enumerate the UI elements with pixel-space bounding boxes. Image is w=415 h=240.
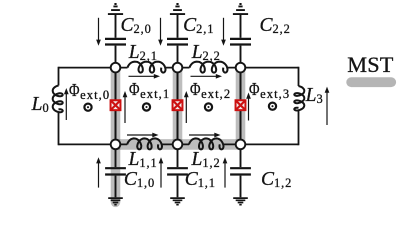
inductor L1,2: [189, 138, 224, 149]
label Phi_ext,0: [69, 81, 110, 102]
ground (top) for C2,1: [170, 4, 185, 14]
node 2: [236, 63, 246, 73]
node 0: [111, 63, 121, 73]
arrow current from C1,0 (up): [96, 157, 101, 187]
label C2,2: [260, 16, 291, 36]
wire: right branch verticals: [298, 67, 300, 146]
capacitor C2,0: [115, 15, 117, 38]
ground (bottom) for C1,1: [170, 198, 185, 205]
arrow current L2,2 (right): [191, 74, 223, 79]
label L2,2: [192, 43, 221, 63]
arrow current into C2,0 (down): [96, 18, 101, 46]
label L2,1: [129, 43, 158, 63]
flux direction symbol (circle-dot) loop 0: [84, 104, 91, 111]
label Phi_ext,3: [249, 80, 290, 101]
inductor L1,1: [127, 138, 162, 149]
label L0: [32, 95, 50, 115]
arrow current L1,2 (right): [189, 133, 221, 138]
MST legend bar: [351, 77, 391, 87]
label L3: [306, 86, 324, 106]
coupler (crossed box) on branch 0: [111, 100, 121, 110]
node 1: [173, 63, 183, 73]
ground (top) for C2,0: [108, 4, 123, 14]
label C1,2: [261, 170, 292, 190]
capacitor C1,2: [240, 144, 242, 167]
label L1,2: [192, 150, 221, 170]
arrow current L1,1 (right): [127, 133, 159, 138]
ground (top) for C2,2: [233, 4, 248, 14]
wire: top rail left segment: [59, 67, 128, 69]
inductor L3 (right): [294, 86, 304, 111]
wire: left branch verticals: [58, 67, 60, 146]
ground (bottom) for C1,2: [233, 198, 248, 205]
label Phi_ext,1: [129, 80, 170, 101]
wire: top rail right segment: [228, 67, 299, 69]
arrow current into C2,2 (down): [221, 18, 226, 46]
wire: top rail mid segment: [166, 67, 190, 69]
wire: bottom rail mid segment: [162, 143, 189, 145]
node 4: [173, 140, 183, 150]
arrow flux Phi_ext,0 (up): [64, 88, 69, 120]
wire: coupler branch 1 vertical: [177, 68, 179, 145]
wire: bottom rail left segment: [59, 143, 128, 145]
MST highlight: bottom rail band: [116, 139, 241, 150]
capacitor C2,1: [177, 15, 179, 38]
node 3: [111, 140, 121, 150]
arrow current into C2,1 (down): [158, 18, 163, 46]
wire: bottom rail right segment: [224, 143, 299, 145]
arrow current from C1,2 (up): [223, 157, 228, 187]
ground (bottom) for C1,0: [108, 198, 123, 205]
inductor L2,2: [190, 62, 228, 73]
wire: coupler branch 0 vertical: [115, 68, 117, 145]
arrow flux Phi_ext,1 (up): [123, 91, 128, 123]
arrow current L2,1 (right): [129, 74, 161, 79]
flux direction symbol (circle-dot) loop 2: [205, 103, 212, 110]
arrow flux Phi_ext,3 (up): [246, 93, 251, 121]
arrow current through L3 (up): [325, 87, 330, 125]
label C1,1: [185, 170, 216, 190]
MST highlight: vertical branch bands + C1,0 ground band: [116, 68, 241, 203]
arrow flux Phi_ext,2 (up): [184, 91, 189, 123]
label C1,0: [124, 170, 155, 190]
flux direction symbol (circle-dot) loop 3: [269, 103, 276, 110]
wire: coupler branch 2 vertical: [240, 68, 242, 145]
arrow current from C1,1 (up): [159, 157, 164, 187]
coupler (crossed box) on branch 1: [173, 100, 183, 110]
label L1,1: [129, 150, 158, 170]
capacitor C1,0: [115, 144, 117, 167]
node 5: [236, 140, 246, 150]
inductor L0 (left): [53, 86, 63, 113]
inductor L2,1: [128, 62, 166, 73]
capacitor C1,1: [177, 144, 179, 167]
coupler (crossed box) on branch 2: [236, 100, 246, 110]
label MST legend: [347, 54, 393, 76]
flux direction symbol (circle-dot) loop 1: [143, 103, 150, 110]
label C2,0: [121, 16, 152, 36]
label Phi_ext,2: [190, 80, 231, 101]
label C2,1: [183, 16, 214, 36]
capacitor C2,2: [240, 15, 242, 38]
